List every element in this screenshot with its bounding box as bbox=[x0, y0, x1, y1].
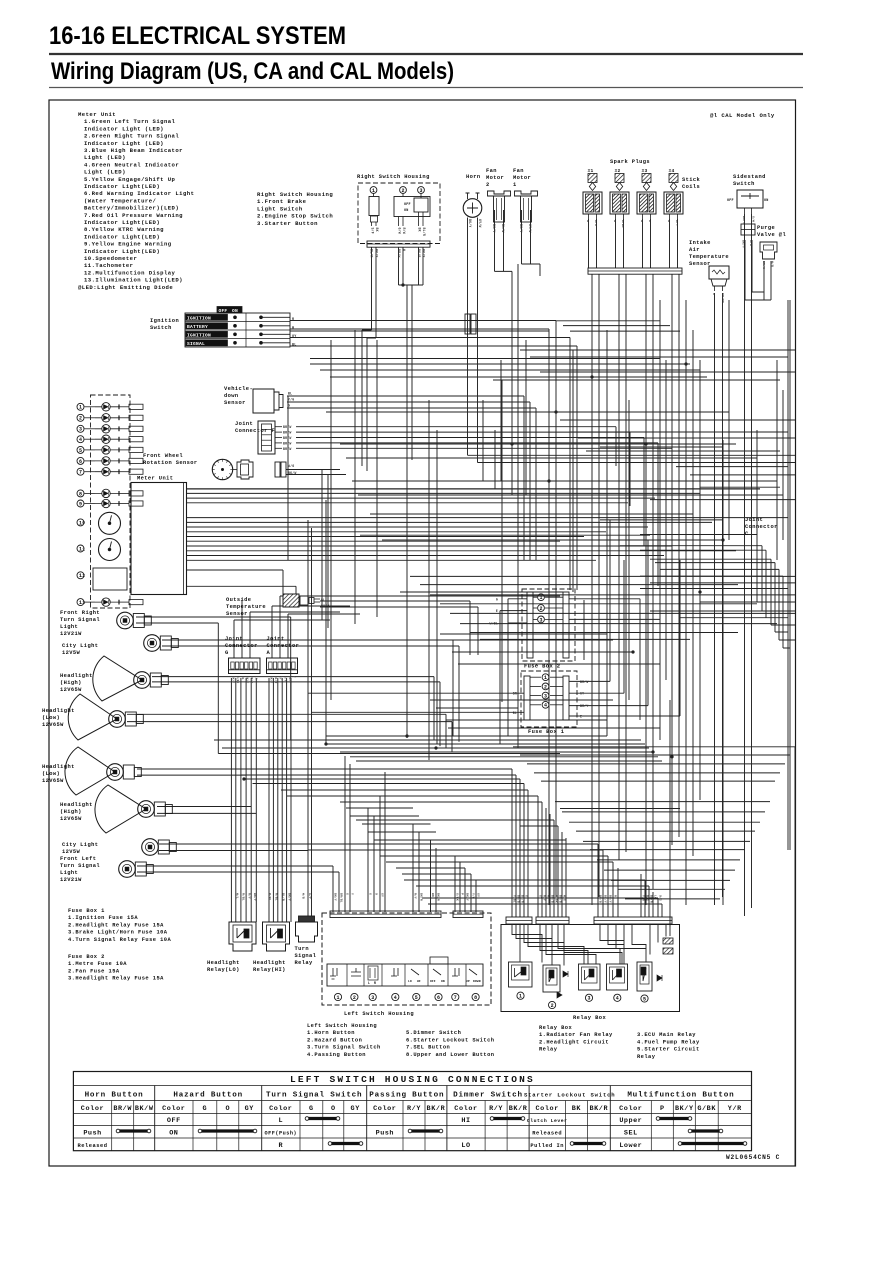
svg-text:W/L: W/L bbox=[236, 893, 240, 899]
svg-text:Y: Y bbox=[293, 676, 296, 678]
svg-text:Joint: Joint bbox=[745, 517, 763, 523]
svg-text:Spark Plugs: Spark Plugs bbox=[610, 159, 650, 165]
svg-text:3.Headlight Relay Fuse 15A: 3.Headlight Relay Fuse 15A bbox=[68, 976, 164, 982]
svg-text:Valve @l: Valve @l bbox=[757, 232, 786, 238]
relay box frame bbox=[501, 925, 680, 1012]
intake air temperature sensor bbox=[709, 266, 729, 279]
svg-text:HI: HI bbox=[461, 1117, 470, 1125]
svg-text:Y: Y bbox=[351, 893, 354, 895]
svg-text:Relay(HI): Relay(HI) bbox=[253, 967, 286, 973]
svg-text:Light Switch: Light Switch bbox=[257, 205, 303, 212]
svg-text:Front Left: Front Left bbox=[60, 856, 96, 862]
passing button contact bbox=[391, 968, 398, 976]
svg-text:8: 8 bbox=[474, 995, 477, 1001]
svg-text:Horn Button: Horn Button bbox=[85, 1092, 144, 1100]
svg-text:4: 4 bbox=[544, 703, 547, 709]
svg-text:12.Multifunction Display: 12.Multifunction Display bbox=[84, 269, 176, 276]
svg-text:Motor: Motor bbox=[486, 175, 504, 181]
svg-text:BK/W: BK/W bbox=[288, 471, 296, 475]
svg-text:Color: Color bbox=[162, 1105, 185, 1113]
svg-text:W: W bbox=[586, 220, 589, 222]
svg-text:BL/W: BL/W bbox=[501, 224, 505, 232]
svg-text:5: 5 bbox=[643, 996, 646, 1002]
svg-text:2: 2 bbox=[544, 684, 547, 690]
purge valve bbox=[741, 224, 755, 235]
svg-text:GY: GY bbox=[245, 1105, 255, 1113]
svg-text:4.Green Neutral Indicator: 4.Green Neutral Indicator bbox=[84, 161, 179, 168]
wire bus: ignition and sensor feeds (horizontal) bbox=[290, 264, 771, 346]
svg-text:2.Green Right Turn Signal: 2.Green Right Turn Signal bbox=[84, 133, 179, 140]
LSH connector bar left bbox=[330, 911, 441, 918]
svg-text:L: L bbox=[279, 1117, 284, 1125]
svg-text:Y/R: Y/R bbox=[728, 1105, 742, 1113]
svg-text:G/BK: G/BK bbox=[456, 893, 460, 901]
svg-text:7.Red Oil Pressure Warning: 7.Red Oil Pressure Warning bbox=[84, 212, 183, 219]
svg-text:11.Tachometer: 11.Tachometer bbox=[84, 262, 134, 269]
svg-text:W/BL: W/BL bbox=[490, 622, 498, 626]
svg-text:0: 0 bbox=[82, 520, 85, 526]
svg-text:Purge: Purge bbox=[757, 225, 775, 231]
svg-text:Push: Push bbox=[376, 1130, 394, 1138]
svg-text:R/Y: R/Y bbox=[248, 893, 252, 899]
left switch housing dashed box bbox=[322, 913, 491, 1005]
svg-text:BR/Y: BR/Y bbox=[609, 895, 613, 903]
turn signal relay bbox=[296, 922, 318, 942]
svg-text:9: 9 bbox=[79, 501, 82, 507]
svg-text:Y/BL: Y/BL bbox=[513, 895, 517, 903]
svg-text:5: 5 bbox=[79, 448, 82, 454]
svg-text:Relay Box: Relay Box bbox=[539, 1025, 572, 1031]
svg-text:4.Passing Button: 4.Passing Button bbox=[307, 1052, 366, 1058]
svg-text:ON: ON bbox=[404, 209, 408, 213]
svg-text:1: 1 bbox=[519, 994, 522, 1000]
svg-text:BR/B: BR/B bbox=[559, 895, 563, 903]
svg-text:GY: GY bbox=[477, 893, 480, 897]
svg-text:Lower: Lower bbox=[619, 1142, 642, 1150]
svg-text:Color: Color bbox=[373, 1105, 396, 1113]
svg-text:1: 1 bbox=[513, 182, 517, 188]
fuse box 1 bbox=[521, 671, 577, 727]
svg-text:BK/Y: BK/Y bbox=[245, 676, 249, 683]
svg-text:Indicator Light (LED): Indicator Light (LED) bbox=[84, 125, 164, 132]
svg-text:BL/R: BL/R bbox=[274, 676, 278, 683]
svg-text:Motor: Motor bbox=[513, 175, 531, 181]
svg-text:3.Starter Button: 3.Starter Button bbox=[257, 220, 318, 227]
svg-text:GY: GY bbox=[351, 1105, 361, 1113]
svg-text:Connector: Connector bbox=[225, 643, 258, 649]
stick coil #3 bbox=[637, 192, 656, 214]
stick coil #1 bbox=[583, 192, 602, 214]
svg-text:G: G bbox=[225, 650, 229, 656]
svg-text:G/R: G/R bbox=[749, 240, 753, 246]
relay box top connector 3 bbox=[594, 917, 672, 924]
svg-text:BR/W: BR/W bbox=[283, 431, 291, 435]
svg-text:BK/Y: BK/Y bbox=[232, 676, 236, 683]
svg-text:(Low): (Low) bbox=[42, 771, 60, 777]
svg-text:1.Ignition Fuse 15A: 1.Ignition Fuse 15A bbox=[68, 915, 138, 921]
wire bus: lower harness horizontals bbox=[137, 736, 795, 904]
svg-text:SEL: SEL bbox=[624, 1130, 638, 1138]
relay 2 diodes bbox=[563, 971, 568, 977]
turn signal switch contact bbox=[368, 966, 378, 980]
svg-text:W: W bbox=[547, 895, 550, 897]
svg-text:W/BK: W/BK bbox=[236, 676, 240, 683]
svg-text:4.Fuel Pump Relay: 4.Fuel Pump Relay bbox=[637, 1039, 700, 1045]
svg-text:BR/W: BR/W bbox=[283, 447, 291, 451]
meter unit dashed box bbox=[91, 395, 131, 608]
svg-text:BR/W: BR/W bbox=[283, 425, 291, 429]
svg-text:2: 2 bbox=[486, 182, 490, 188]
svg-text:R/W: R/W bbox=[402, 228, 406, 234]
svg-text:7.SEL Button: 7.SEL Button bbox=[406, 1045, 450, 1051]
svg-text:Dimmer Switch: Dimmer Switch bbox=[453, 1092, 523, 1100]
relay 2 headlight circuit relay bbox=[543, 965, 560, 992]
svg-text:BK/R: BK/R bbox=[417, 249, 421, 257]
table connection bars bbox=[118, 1129, 149, 1132]
outside temperature sensor bbox=[283, 594, 299, 607]
meter LED symbols bbox=[85, 406, 96, 408]
front brake light switch bbox=[373, 193, 375, 196]
svg-text:BK/R: BK/R bbox=[589, 1105, 608, 1113]
svg-text:BK/Y: BK/Y bbox=[466, 893, 470, 901]
svg-text:BK/Y: BK/Y bbox=[288, 893, 292, 901]
svg-text:BL/R: BL/R bbox=[282, 893, 286, 901]
svg-text:@LED:Light Emitting Diode: @LED:Light Emitting Diode bbox=[78, 284, 173, 291]
svg-text:BK/Y: BK/Y bbox=[270, 676, 274, 683]
svg-text:4: 4 bbox=[79, 437, 82, 443]
svg-text:Released: Released bbox=[78, 1143, 108, 1149]
svg-text:Light (LED): Light (LED) bbox=[84, 169, 126, 176]
svg-text:Sensor: Sensor bbox=[689, 261, 711, 267]
svg-text:Connector F: Connector F bbox=[235, 428, 275, 434]
svg-text:R/BL: R/BL bbox=[268, 893, 272, 901]
svg-text:Headlight: Headlight bbox=[60, 802, 93, 808]
LSH connector bar right bbox=[453, 911, 483, 918]
svg-text:7: 7 bbox=[454, 995, 457, 1001]
svg-text:Ignition: Ignition bbox=[150, 318, 179, 324]
svg-text:OFF: OFF bbox=[727, 199, 734, 203]
headlight relay LO bbox=[229, 922, 256, 951]
svg-text:ON: ON bbox=[169, 1130, 178, 1138]
svg-text:W/BK: W/BK bbox=[555, 895, 559, 903]
svg-text:W/G: W/G bbox=[563, 895, 567, 901]
svg-text:BK/W: BK/W bbox=[135, 1105, 154, 1113]
svg-text:Y/R: Y/R bbox=[642, 895, 646, 901]
svg-text:3: 3 bbox=[544, 694, 547, 700]
svg-text:R/Y: R/Y bbox=[407, 1105, 421, 1113]
relay box top connector 2 bbox=[536, 917, 569, 924]
ignition switch table bbox=[185, 313, 290, 347]
svg-text:BK/Y: BK/Y bbox=[321, 604, 329, 608]
svg-text:BK/R: BK/R bbox=[420, 893, 424, 901]
svg-text:Clutch Lever: Clutch Lever bbox=[527, 1118, 568, 1124]
relay 5 diode bbox=[657, 975, 662, 981]
svg-text:3: 3 bbox=[82, 600, 85, 606]
svg-text:IGNITION: IGNITION bbox=[187, 332, 211, 338]
svg-text:BK/Y: BK/Y bbox=[334, 893, 338, 901]
svg-text:GY/W: GY/W bbox=[528, 224, 532, 232]
svg-text:2.Hazard Button: 2.Hazard Button bbox=[307, 1037, 362, 1043]
svg-text:BL: BL bbox=[321, 598, 325, 602]
svg-text:R: R bbox=[614, 895, 617, 897]
svg-text:2.Headlight Circuit: 2.Headlight Circuit bbox=[539, 1039, 609, 1045]
svg-text:8: 8 bbox=[79, 491, 82, 497]
svg-text:5.Yellow Engage/Shift Up: 5.Yellow Engage/Shift Up bbox=[84, 176, 176, 183]
svg-text:Front Right: Front Right bbox=[60, 610, 100, 616]
svg-text:BK/R: BK/R bbox=[437, 893, 441, 901]
svg-text:R/G: R/G bbox=[646, 895, 650, 901]
svg-text:City Light: City Light bbox=[62, 643, 98, 649]
svg-text:Connector: Connector bbox=[745, 524, 778, 530]
svg-text:6: 6 bbox=[437, 995, 440, 1001]
svg-text:BR/B: BR/B bbox=[551, 895, 555, 903]
svg-text:BR/Y: BR/Y bbox=[580, 704, 588, 708]
svg-text:Stick: Stick bbox=[682, 177, 701, 183]
svg-text:Light: Light bbox=[60, 870, 78, 876]
svg-text:G: G bbox=[203, 1105, 208, 1113]
svg-text:W: W bbox=[667, 220, 670, 222]
svg-text:Pulled In: Pulled In bbox=[530, 1143, 564, 1149]
svg-text:BK/Y: BK/Y bbox=[519, 224, 523, 232]
svg-text:BL/R: BL/R bbox=[370, 249, 374, 257]
svg-text:Color: Color bbox=[619, 1105, 642, 1113]
svg-text:G/W: G/W bbox=[398, 228, 402, 234]
svg-text:5: 5 bbox=[415, 995, 418, 1001]
svg-text:Left Switch Housing: Left Switch Housing bbox=[344, 1011, 414, 1017]
svg-text:Switch: Switch bbox=[733, 181, 755, 187]
svg-text:3.Turn Signal Switch: 3.Turn Signal Switch bbox=[307, 1045, 381, 1051]
wire bus: top component leads (vertical) bbox=[372, 210, 772, 916]
svg-text:2: 2 bbox=[353, 995, 356, 1001]
svg-text:3: 3 bbox=[587, 996, 590, 1002]
svg-text:City Light: City Light bbox=[62, 842, 98, 848]
svg-text:Temperature: Temperature bbox=[226, 604, 266, 610]
svg-text:G: G bbox=[288, 404, 290, 408]
FWRS connector bbox=[237, 460, 253, 479]
svg-text:BR/BK: BR/BK bbox=[721, 293, 725, 303]
svg-text:ON: ON bbox=[441, 980, 445, 983]
svg-text:BL: BL bbox=[241, 676, 244, 680]
svg-text:Fuse Box 1: Fuse Box 1 bbox=[528, 729, 564, 735]
svg-text:P: P bbox=[461, 893, 464, 895]
svg-text:Indicator Light(LED): Indicator Light(LED) bbox=[84, 248, 160, 255]
svg-text:Headlight: Headlight bbox=[207, 960, 240, 966]
svg-text:Headlight: Headlight bbox=[253, 960, 286, 966]
svg-text:Fan: Fan bbox=[486, 168, 497, 174]
svg-text:(High): (High) bbox=[60, 680, 82, 686]
front wheel rotation sensor bbox=[212, 459, 232, 479]
svg-text:GY: GY bbox=[279, 676, 282, 680]
svg-text:BK/Y: BK/Y bbox=[288, 676, 292, 683]
svg-text:(Water Temperature/: (Water Temperature/ bbox=[84, 197, 157, 204]
svg-text:Fan: Fan bbox=[513, 168, 524, 174]
svg-text:BR/W: BR/W bbox=[113, 1105, 132, 1113]
svg-text:(Low): (Low) bbox=[42, 715, 60, 721]
svg-text:O: O bbox=[331, 1105, 336, 1113]
svg-text:BK/Y: BK/Y bbox=[253, 893, 257, 901]
svg-text:OFF: OFF bbox=[219, 308, 228, 314]
svg-text:Fuse Box 1: Fuse Box 1 bbox=[68, 908, 105, 914]
svg-text:2: 2 bbox=[539, 606, 542, 612]
svg-text:BATTERY: BATTERY bbox=[187, 324, 208, 330]
svg-text:Color: Color bbox=[269, 1105, 292, 1113]
svg-text:BK: BK bbox=[431, 893, 434, 897]
svg-text:BK/Y: BK/Y bbox=[250, 676, 254, 683]
svg-text:GY/W: GY/W bbox=[478, 219, 482, 227]
svg-text:Light (LED): Light (LED) bbox=[84, 154, 126, 161]
svg-text:G/BK: G/BK bbox=[697, 1105, 716, 1113]
wire bus: central harness horizontals bbox=[127, 350, 795, 728]
ignition contacts bbox=[234, 316, 237, 319]
svg-text:12V65W: 12V65W bbox=[42, 722, 64, 728]
svg-text:A: A bbox=[267, 650, 271, 656]
svg-text:W/B: W/B bbox=[302, 893, 306, 899]
stick coil #2 bbox=[610, 192, 629, 214]
svg-text:Right Switch Housing: Right Switch Housing bbox=[357, 174, 430, 180]
svg-text:BL/R: BL/R bbox=[422, 228, 426, 236]
relay 4 fuel pump relay bbox=[607, 964, 628, 990]
svg-text:3.Blue High Beam Indicator: 3.Blue High Beam Indicator bbox=[84, 147, 183, 154]
svg-text:Relay: Relay bbox=[539, 1047, 558, 1053]
svg-text:Multifunction Button: Multifunction Button bbox=[627, 1092, 734, 1100]
LSH switch row bbox=[327, 964, 483, 986]
FWRS inline connector pair bbox=[275, 462, 280, 477]
svg-text:R/BL: R/BL bbox=[242, 893, 246, 901]
svg-text:2: 2 bbox=[82, 573, 85, 579]
svg-text:GY: GY bbox=[539, 895, 542, 899]
svg-text:R/Y: R/Y bbox=[543, 895, 547, 901]
svg-text:1: 1 bbox=[82, 546, 85, 552]
svg-text:Switch: Switch bbox=[150, 325, 172, 331]
svg-text:ON: ON bbox=[764, 199, 768, 203]
svg-text:R: R bbox=[374, 981, 376, 985]
svg-text:10.Speedometer: 10.Speedometer bbox=[84, 255, 137, 262]
svg-text:Push: Push bbox=[83, 1130, 101, 1138]
svg-text:Front Wheel: Front Wheel bbox=[143, 453, 183, 459]
svg-text:@l CAL Model Only: @l CAL Model Only bbox=[710, 112, 775, 119]
svg-text:W/Y: W/Y bbox=[283, 676, 287, 682]
svg-text:BK/Y: BK/Y bbox=[422, 249, 426, 257]
svg-text:OFF: OFF bbox=[167, 1117, 181, 1125]
svg-text:Sensor: Sensor bbox=[226, 611, 248, 617]
svg-text:BR/W: BR/W bbox=[580, 680, 588, 684]
svg-text:Indicator Light (LED): Indicator Light (LED) bbox=[84, 140, 164, 147]
svg-text:Starter Lockout Switch: Starter Lockout Switch bbox=[524, 1092, 615, 1099]
svg-text:W: W bbox=[640, 220, 643, 222]
svg-text:down: down bbox=[224, 393, 239, 399]
svg-text:Joint: Joint bbox=[225, 636, 243, 642]
svg-text:12V5W: 12V5W bbox=[62, 849, 81, 855]
svg-text:BK/Y: BK/Y bbox=[742, 216, 746, 224]
svg-text:Connector: Connector bbox=[267, 643, 300, 649]
svg-text:Meter Unit: Meter Unit bbox=[78, 111, 116, 118]
svg-text:6.Starter Lockout Switch: 6.Starter Lockout Switch bbox=[406, 1037, 494, 1043]
svg-text:Color: Color bbox=[535, 1105, 558, 1113]
svg-text:Joint: Joint bbox=[267, 636, 285, 642]
svg-text:9.Yellow Engine Warning: 9.Yellow Engine Warning bbox=[84, 241, 172, 248]
svg-text:LO: LO bbox=[408, 980, 412, 983]
svg-text:OFF: OFF bbox=[404, 203, 411, 207]
ignition inline connector bbox=[465, 314, 470, 334]
svg-text:GY: GY bbox=[381, 893, 384, 897]
svg-text:HI: HI bbox=[417, 980, 421, 983]
svg-text:R/Y: R/Y bbox=[414, 893, 418, 899]
title rule bbox=[49, 53, 803, 55]
svg-text:4: 4 bbox=[394, 995, 397, 1001]
svg-text:3: 3 bbox=[79, 427, 82, 433]
svg-text:12V65W: 12V65W bbox=[60, 687, 82, 693]
svg-text:BR: BR bbox=[513, 692, 517, 696]
svg-text:G/Y: G/Y bbox=[308, 893, 312, 899]
SEL button contact bbox=[452, 968, 459, 976]
svg-text:Color: Color bbox=[454, 1105, 477, 1113]
svg-text:2.Engine Stop Switch: 2.Engine Stop Switch bbox=[257, 213, 333, 220]
svg-text:Turn Signal: Turn Signal bbox=[60, 617, 100, 623]
headlight relay HI bbox=[263, 922, 290, 951]
svg-text:1: 1 bbox=[544, 675, 547, 681]
svg-text:ON: ON bbox=[232, 308, 238, 314]
svg-text:BK: BK bbox=[375, 228, 379, 232]
svg-text:Battery/Immobilizer)(LED): Battery/Immobilizer)(LED) bbox=[84, 205, 179, 212]
svg-text:Left Switch Housing: Left Switch Housing bbox=[307, 1023, 377, 1029]
svg-text:8.Yellow KTRC Warning: 8.Yellow KTRC Warning bbox=[84, 226, 164, 233]
svg-text:1: 1 bbox=[79, 405, 82, 411]
svg-text:5.Starter Circuit: 5.Starter Circuit bbox=[637, 1047, 700, 1053]
svg-text:BK/Y: BK/Y bbox=[604, 895, 608, 903]
svg-text:IGNITION: IGNITION bbox=[187, 315, 211, 321]
svg-text:W: W bbox=[402, 249, 406, 251]
engine stop switch bbox=[402, 193, 404, 196]
svg-text:2: 2 bbox=[79, 416, 82, 422]
svg-text:LG: LG bbox=[255, 676, 258, 680]
multifunction display block bbox=[93, 568, 127, 590]
svg-text:BR/W: BR/W bbox=[762, 261, 766, 269]
LSH pin circles bbox=[334, 993, 341, 1000]
svg-text:2.Fan Fuse 15A: 2.Fan Fuse 15A bbox=[68, 968, 120, 974]
svg-text:7: 7 bbox=[79, 470, 82, 476]
svg-text:(High): (High) bbox=[60, 809, 82, 815]
svg-text:3.Brake Light/Horn Fuse 10A: 3.Brake Light/Horn Fuse 10A bbox=[68, 930, 168, 936]
svg-text:Outside: Outside bbox=[226, 597, 251, 603]
svg-text:BR/BL: BR/BL bbox=[340, 893, 344, 903]
wire bus: lower connector feeds (vertical) bbox=[231, 677, 795, 1166]
svg-text:Air: Air bbox=[689, 247, 700, 253]
relay box top connector 1 bbox=[506, 917, 532, 924]
svg-text:12V65W: 12V65W bbox=[60, 816, 82, 822]
svg-text:12V5W: 12V5W bbox=[62, 650, 81, 656]
svg-text:Signal: Signal bbox=[295, 953, 317, 959]
svg-text:R/BL: R/BL bbox=[621, 220, 625, 228]
relay 3 ECU main relay bbox=[579, 964, 601, 990]
svg-text:3: 3 bbox=[539, 617, 542, 623]
svg-text:DOWN: DOWN bbox=[473, 980, 481, 983]
svg-text:12V21W: 12V21W bbox=[60, 877, 82, 883]
svg-text:BR/W: BR/W bbox=[397, 249, 401, 257]
svg-text:Sensor: Sensor bbox=[224, 400, 246, 406]
svg-text:Color: Color bbox=[81, 1105, 104, 1113]
svg-text:Turn Signal Switch: Turn Signal Switch bbox=[266, 1092, 362, 1100]
svg-text:Joint: Joint bbox=[235, 421, 253, 427]
RSH pin 2 bbox=[400, 187, 407, 194]
svg-text:BK/R: BK/R bbox=[427, 1105, 446, 1113]
svg-text:SIGNAL: SIGNAL bbox=[187, 341, 205, 347]
svg-text:E: E bbox=[580, 715, 582, 719]
svg-text:1.Green Left Turn Signal: 1.Green Left Turn Signal bbox=[84, 118, 176, 125]
svg-text:Wiring Diagram (US, CA and CAL: Wiring Diagram (US, CA and CAL Models) bbox=[51, 58, 454, 85]
svg-text:C: C bbox=[745, 531, 749, 537]
svg-text:3.ECU Main Relay: 3.ECU Main Relay bbox=[637, 1032, 696, 1038]
svg-text:Right Switch Housing: Right Switch Housing bbox=[257, 191, 333, 198]
